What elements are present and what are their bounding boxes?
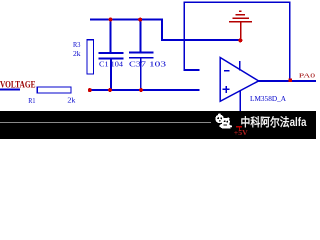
watermark bar [0,111,316,139]
node junction [289,79,293,82]
svg-text:2k: 2k [73,50,81,58]
resistor R1 [28,87,75,105]
wire [90,89,200,91]
node junction [139,88,143,92]
capacitor C1 [99,20,124,90]
op-amp U1 LM358D_A [220,58,286,112]
power +5V [234,126,249,137]
logo [215,114,232,129]
capacitor C37 [129,20,167,90]
node junction [238,38,242,42]
separator line [0,122,211,123]
wire [161,19,163,41]
wire [161,39,240,41]
node junction [138,18,142,22]
svg-text:LM358D_A: LM358D_A [250,94,287,103]
svg-text:R1: R1 [28,96,35,105]
node junction [108,88,112,92]
svg-text:103: 103 [149,61,167,69]
resistor R3 [73,40,94,74]
ground [229,11,252,41]
node junction [88,88,92,92]
svg-text:R3: R3 [73,41,81,49]
wire [90,19,163,21]
node junction [109,18,113,22]
svg-text:2k: 2k [67,96,75,105]
svg-text:C1 104: C1 104 [99,61,124,69]
svg-text:PA0: PA0 [299,72,315,79]
svg-text:中科阿尔法alfa: 中科阿尔法alfa [241,115,308,129]
wire [0,89,20,91]
svg-text:VOLTAGE: VOLTAGE [0,80,36,90]
wire [183,1,290,81]
wire [259,80,316,82]
svg-text:+5V: +5V [234,128,249,137]
svg-text:C37: C37 [129,61,147,69]
